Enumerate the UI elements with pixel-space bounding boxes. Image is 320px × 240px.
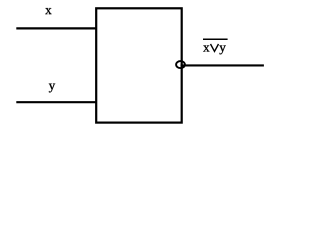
glyph y — [219, 46, 225, 55]
wire output — [181, 64, 264, 66]
node label x (input) — [45, 8, 51, 14]
node label y (input) — [49, 84, 55, 93]
wire input y — [16, 101, 97, 103]
inversion bubble (output negation circle) — [176, 61, 185, 68]
wire input x — [16, 27, 97, 29]
gate body (NOR gate, IEC rectangle outline) — [96, 8, 182, 122]
node label x∨y (complemented output) — [203, 39, 228, 54]
overline (negation bar) — [203, 38, 228, 40]
glyph ∨ (logical OR) — [211, 44, 219, 51]
glyph x — [203, 46, 209, 52]
